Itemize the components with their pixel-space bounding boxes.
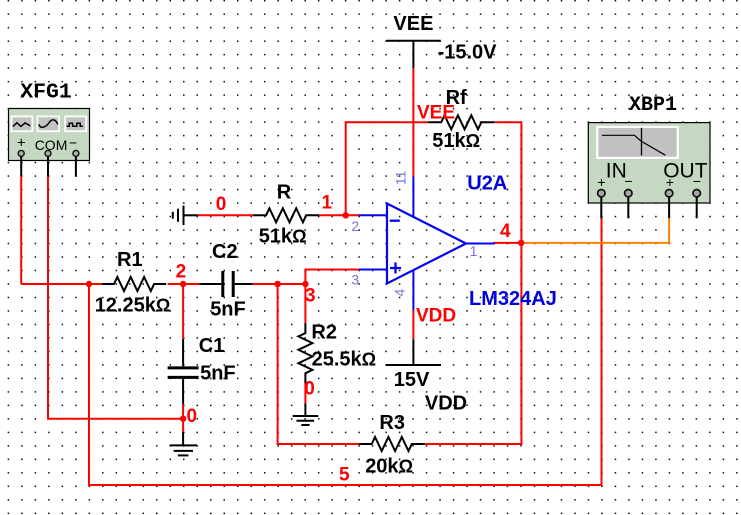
svg-text:+: + bbox=[597, 174, 605, 190]
resistor R3 bbox=[359, 437, 425, 451]
wire R3 right up to node4 bbox=[425, 243, 522, 444]
svg-text:12.25kΩ: 12.25kΩ bbox=[95, 295, 171, 317]
junction node 3 b bbox=[302, 281, 308, 287]
ground left of R bbox=[173, 206, 198, 226]
svg-text:5nF: 5nF bbox=[200, 363, 236, 385]
capacitor C1 bbox=[168, 339, 199, 405]
wire output to node4 bbox=[494, 242, 522, 244]
capacitor C2 bbox=[199, 271, 252, 297]
op-amp U2A bbox=[359, 177, 495, 310]
junction node 0 bbox=[180, 416, 186, 422]
svg-text:C2: C2 bbox=[212, 241, 238, 263]
svg-text:COM: COM bbox=[35, 137, 68, 153]
svg-text:XFG1: XFG1 bbox=[20, 81, 72, 105]
wire XFG1 COM to node0 bbox=[48, 176, 183, 419]
svg-text:VDD: VDD bbox=[416, 305, 456, 326]
svg-text:VDD: VDD bbox=[425, 393, 467, 415]
svg-text:3: 3 bbox=[305, 286, 316, 307]
svg-text:0: 0 bbox=[304, 378, 315, 399]
resistor R1 bbox=[102, 277, 166, 291]
wire node5 junction down and along bottom to XBP1 bbox=[89, 218, 602, 485]
svg-text:11: 11 bbox=[392, 170, 408, 185]
wire node2 down to C1 bbox=[182, 284, 184, 339]
svg-text:1: 1 bbox=[322, 193, 333, 214]
svg-text:1: 1 bbox=[470, 243, 478, 259]
junction node 5 bbox=[86, 281, 92, 287]
svg-text:15V: 15V bbox=[394, 369, 430, 391]
ground below R2 bbox=[293, 403, 319, 425]
junction node 1 bbox=[343, 212, 349, 218]
svg-text:−: − bbox=[693, 173, 701, 189]
VEE supply bbox=[386, 41, 441, 68]
svg-text:2: 2 bbox=[176, 261, 187, 282]
svg-text:3: 3 bbox=[351, 272, 359, 288]
wire ground to R bbox=[198, 214, 253, 216]
wire node1 up to Rf bbox=[346, 122, 429, 215]
wire R2 bottom to ground bbox=[304, 382, 306, 403]
svg-text:+: + bbox=[666, 174, 674, 190]
svg-text:LM324AJ: LM324AJ bbox=[469, 288, 557, 310]
svg-text:51kΩ: 51kΩ bbox=[432, 130, 480, 152]
wire C2 right to node3 bbox=[253, 283, 306, 285]
wire orange node4 to XBP1 OUT bbox=[521, 218, 669, 243]
wire pin4 down to VDD supply bbox=[412, 310, 414, 339]
svg-text:4: 4 bbox=[392, 289, 408, 297]
svg-text:R2: R2 bbox=[311, 321, 337, 343]
svg-text:5nF: 5nF bbox=[210, 299, 246, 321]
junction node 3 a bbox=[274, 281, 280, 287]
ground below C1 bbox=[170, 432, 197, 456]
junction node 4 bbox=[518, 240, 524, 246]
svg-text:20kΩ: 20kΩ bbox=[365, 456, 413, 478]
wire R1 right to node2 bbox=[168, 283, 184, 285]
wire R right to node1 bbox=[319, 214, 359, 216]
wire XFG1 plus to R1 bbox=[21, 283, 102, 285]
svg-text:VEE: VEE bbox=[417, 102, 455, 123]
junction node 2 bbox=[180, 281, 186, 287]
XFG1 function generator bbox=[9, 109, 90, 177]
resistor Rf bbox=[428, 115, 494, 129]
svg-text:51kΩ: 51kΩ bbox=[259, 226, 307, 248]
svg-text:VEE: VEE bbox=[393, 13, 433, 35]
wire Rf right down to node4 bbox=[495, 122, 522, 243]
XBP1 bode plotter bbox=[588, 123, 710, 219]
wire node3 down to R3 bbox=[278, 284, 359, 444]
svg-text:4: 4 bbox=[500, 221, 511, 242]
wire XFG1 plus terminal down bbox=[20, 176, 22, 284]
svg-text:R3: R3 bbox=[379, 412, 405, 434]
svg-text:0: 0 bbox=[216, 194, 227, 215]
wire C1 bottom to node0 ground bbox=[182, 404, 184, 432]
svg-text:+: + bbox=[17, 134, 26, 151]
svg-text:2: 2 bbox=[351, 218, 359, 234]
svg-text:-15.0V: -15.0V bbox=[438, 41, 498, 63]
wire node3 up to plus input bbox=[305, 270, 359, 285]
resistor R2 vertical bbox=[298, 323, 312, 383]
svg-text:C1: C1 bbox=[199, 335, 225, 357]
VDD supply bbox=[386, 339, 441, 365]
svg-text:−: − bbox=[624, 173, 632, 189]
resistor R bbox=[253, 208, 319, 222]
wire node3 down to R2 bbox=[304, 284, 306, 323]
svg-text:5: 5 bbox=[339, 465, 350, 486]
wire node2 to C2 bbox=[183, 283, 199, 285]
svg-text:R: R bbox=[277, 181, 292, 203]
svg-text:−: − bbox=[69, 135, 77, 151]
svg-text:U2A: U2A bbox=[467, 172, 507, 194]
wire VEE supply down to pin11 bbox=[412, 68, 414, 177]
svg-text:R1: R1 bbox=[117, 249, 143, 271]
svg-text:0: 0 bbox=[187, 406, 198, 427]
svg-text:25.5kΩ: 25.5kΩ bbox=[312, 348, 377, 370]
svg-text:XBP1: XBP1 bbox=[629, 94, 677, 117]
